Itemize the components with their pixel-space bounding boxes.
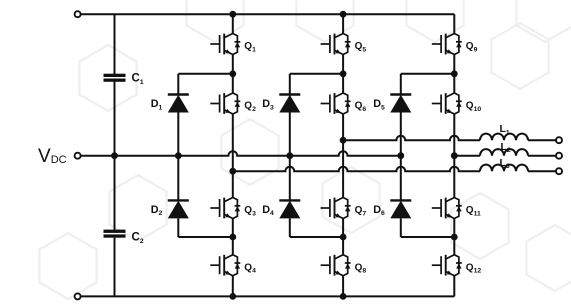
svg-text:Q11: Q11 [466, 205, 481, 217]
transistor Q12 (IGBT with antiparallel diode) [432, 255, 462, 276]
svg-text:C2: C2 [132, 232, 144, 245]
svg-text:Q5: Q5 [355, 41, 367, 53]
wire C1 to C2 through midpoint [114, 82, 116, 230]
wire D6 anode down [400, 218, 402, 237]
svg-text:D6: D6 [373, 204, 385, 217]
node leg3 upper clamp junction [451, 70, 458, 77]
wire leg1 Q4 emitter to DC- rail [232, 276, 234, 297]
wire leg2 to Q6 collector [342, 74, 344, 93]
wire leg2 phase output section [342, 114, 344, 198]
wire leg1 to Q2 collector [232, 74, 234, 93]
svg-text:Q2: Q2 [244, 101, 256, 113]
transistor Q1 (IGBT with antiparallel diode) [210, 34, 240, 55]
svg-text:D5: D5 [373, 98, 385, 111]
wire L3 to output terminal [528, 170, 556, 172]
svg-text:Q1: Q1 [244, 41, 256, 53]
wire DC+ rail to C1 [114, 14, 116, 74]
transistor Q9 (IGBT with antiparallel diode) [432, 34, 462, 55]
capacitor C1 [104, 74, 126, 82]
terminal VDC midpoint (open circle) [75, 153, 81, 159]
svg-text:Q9: Q9 [466, 41, 478, 53]
wire leg2 upper clamp branch horizontal [290, 73, 343, 75]
wire neutral to D4 cathode [289, 156, 291, 201]
transistor Q4 (IGBT with antiparallel diode) [210, 255, 240, 276]
wire D5 anode to neutral [400, 113, 402, 156]
node leg1 lower clamp junction [229, 234, 236, 241]
wire neutral to D2 cathode [177, 156, 179, 201]
wire phase B to L2 [454, 155, 480, 157]
wire leg2 collector of Q5 [342, 14, 344, 33]
svg-text:D2: D2 [151, 204, 163, 217]
transistor Q2 (IGBT with antiparallel diode) [210, 93, 240, 114]
node leg2 phase tap [340, 137, 347, 144]
svg-text:Q8: Q8 [355, 262, 367, 274]
transistor Q7 (IGBT with antiparallel diode) [321, 198, 351, 219]
svg-text:Q4: Q4 [244, 262, 256, 274]
node leg1 DC- rail junction [229, 293, 236, 300]
node leg2 neutral junction [286, 152, 293, 159]
svg-text:D3: D3 [262, 98, 274, 111]
svg-text:Q12: Q12 [466, 262, 482, 274]
wire leg1 collector of Q1 [232, 14, 234, 33]
diode D6 (clamp diode) [390, 200, 411, 218]
wire leg3 to Q12 collector [453, 237, 455, 255]
wire leg3 Q11 emitter to clamp node [453, 219, 455, 238]
inductor L1 [480, 134, 528, 141]
wire leg1 Q3 emitter to clamp node [232, 219, 234, 238]
wire leg2 Q8 emitter to DC- rail [342, 276, 344, 297]
wire leg1 clamp branch to D1 [177, 74, 179, 95]
wire phase A to L1 [343, 136, 480, 140]
transistor Q11 (IGBT with antiparallel diode) [432, 198, 462, 219]
wire leg3 Q9 emitter to clamp node [453, 55, 455, 74]
inductor L2 [480, 149, 528, 156]
wire leg2 Q7 emitter to clamp node [342, 219, 344, 238]
wire leg3 to Q10 collector [453, 74, 455, 93]
node leg1 neutral junction [175, 152, 182, 159]
capacitor C2 [104, 230, 126, 238]
diode D2 (clamp diode) [168, 200, 189, 218]
node leg1 phase tap [229, 168, 236, 175]
node capacitor midpoint junction [111, 152, 118, 159]
node leg3 lower clamp junction [451, 234, 458, 241]
wire leg1 Q1 emitter to clamp node [232, 55, 234, 74]
wire L2 to output terminal [528, 155, 556, 157]
transistor Q10 (IGBT with antiparallel diode) [432, 93, 462, 114]
node leg1 upper clamp junction [229, 70, 236, 77]
svg-text:C1: C1 [132, 73, 144, 86]
svg-text:VDC: VDC [38, 146, 67, 167]
wire leg3 upper clamp branch horizontal [401, 73, 455, 75]
transistor Q3 (IGBT with antiparallel diode) [210, 198, 240, 219]
wire neutral to D6 cathode [400, 156, 402, 201]
wire phase C to L3 [233, 167, 480, 171]
svg-text:Q7: Q7 [355, 205, 367, 217]
transistor Q6 (IGBT with antiparallel diode) [321, 93, 351, 114]
wire leg2 clamp branch to D3 [289, 74, 291, 95]
wire leg1 phase output section [232, 114, 234, 198]
wire bottom DC- rail [81, 295, 455, 297]
terminal phase C output [556, 168, 562, 174]
terminal phase A output [556, 137, 562, 143]
node leg2 lower clamp junction [340, 234, 347, 241]
node leg3 phase tap [451, 152, 458, 159]
svg-text:L3: L3 [500, 157, 510, 170]
wire leg2 Q5 emitter to clamp node [342, 55, 344, 74]
wire D2 anode down [177, 218, 179, 237]
node leg1 DC+ rail junction [229, 11, 236, 18]
wire C2 to DC- rail [114, 238, 116, 297]
wire top DC+ rail [81, 13, 455, 15]
terminal DC- (open circle) [75, 293, 81, 299]
svg-text:L1: L1 [500, 123, 510, 136]
diode D3 (clamp diode) [279, 95, 300, 113]
wire leg3 collector of Q9 [453, 14, 455, 33]
node leg2 upper clamp junction [340, 70, 347, 77]
wire D3 anode to neutral [289, 113, 291, 156]
node leg2 DC+ rail junction [340, 11, 347, 18]
wire midpoint (neutral) rail [81, 151, 401, 155]
wire leg1 lower clamp branch horizontal [178, 236, 233, 238]
node leg2 DC- rail junction [340, 293, 347, 300]
inductor L3 [480, 165, 528, 172]
wire leg3 Q12 emitter to DC- rail [453, 276, 455, 297]
svg-text:D4: D4 [262, 204, 274, 217]
diode D1 (clamp diode) [168, 95, 189, 113]
svg-text:Q10: Q10 [466, 101, 482, 113]
svg-text:L2: L2 [501, 141, 511, 154]
wire D4 anode down [289, 218, 291, 237]
svg-text:D1: D1 [151, 98, 163, 111]
wire D1 anode to neutral [177, 113, 179, 156]
transistor Q5 (IGBT with antiparallel diode) [321, 34, 351, 55]
terminal phase B output [556, 153, 562, 159]
wire leg3 lower clamp branch horizontal [401, 236, 455, 238]
svg-text:Q3: Q3 [244, 205, 256, 217]
wire leg3 phase output section [453, 114, 455, 198]
wire leg3 clamp branch to D5 [400, 74, 402, 95]
transistor Q8 (IGBT with antiparallel diode) [321, 255, 351, 276]
wire L1 to output terminal [528, 139, 556, 141]
terminal DC+ (open circle) [75, 11, 81, 17]
diode D5 (clamp diode) [390, 95, 411, 113]
wire leg1 to Q4 collector [232, 237, 234, 255]
wire leg2 lower clamp branch horizontal [290, 236, 343, 238]
wire leg2 to Q8 collector [342, 237, 344, 255]
wire leg1 upper clamp branch horizontal [178, 73, 233, 75]
diode D4 (clamp diode) [279, 200, 300, 218]
svg-text:Q6: Q6 [355, 101, 367, 113]
node leg3 neutral junction [397, 152, 404, 159]
